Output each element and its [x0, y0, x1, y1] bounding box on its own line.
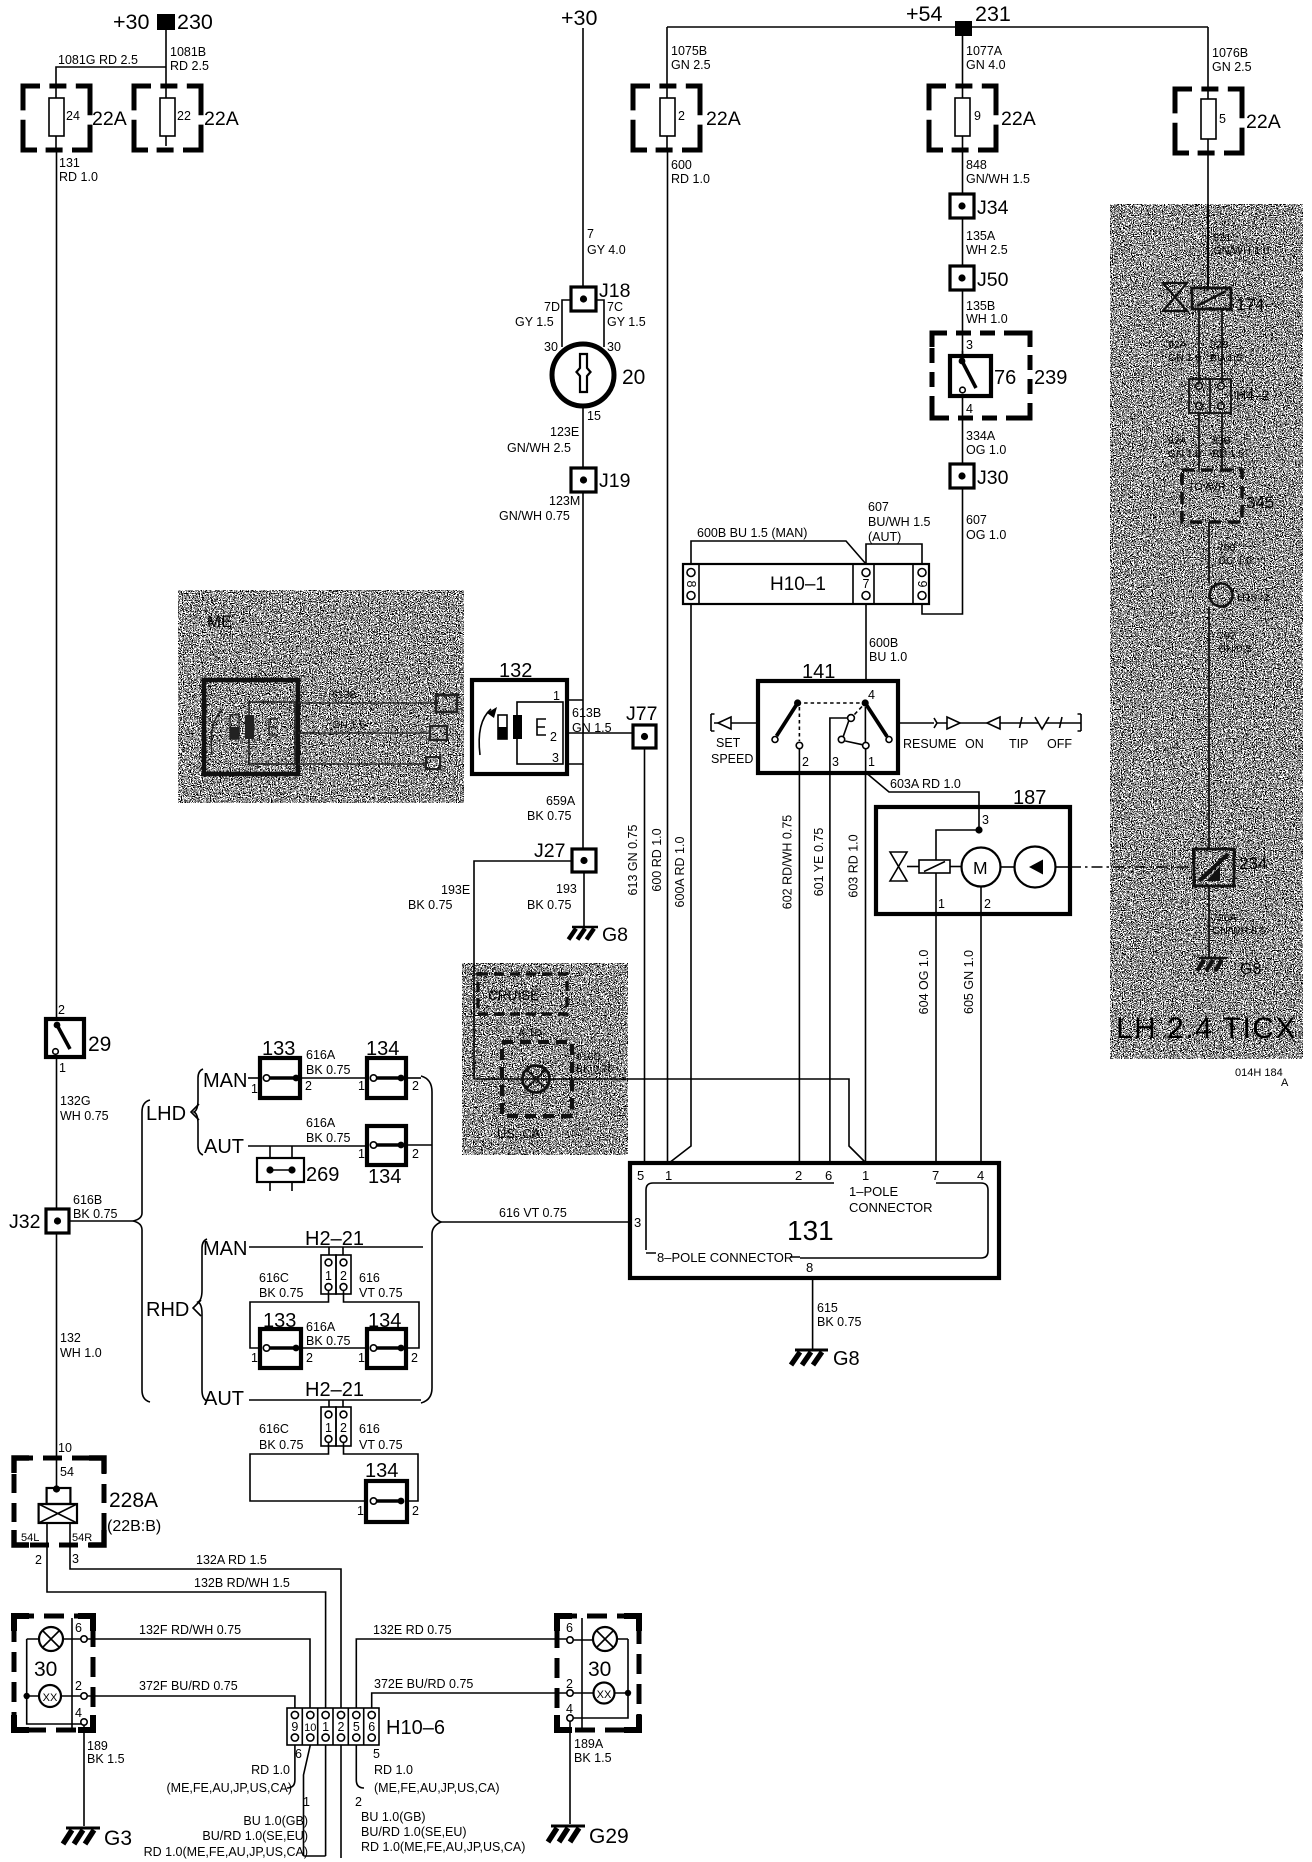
wire from J19 into 132 pin 1 and pin 3 — [567, 700, 583, 764]
svg-text:22A: 22A — [706, 108, 741, 130]
svg-text:24: 24 — [66, 109, 80, 123]
wire 1076B GN 2.5 — [1208, 27, 1252, 89]
svg-text:J34: J34 — [977, 197, 1009, 219]
ground G8 — [569, 924, 629, 946]
wire 602 RD/WH 0.75 — [781, 748, 800, 1163]
svg-text:GY 1.5: GY 1.5 — [607, 315, 646, 329]
cruise control switch 141 — [758, 661, 898, 773]
svg-text:2: 2 — [340, 1269, 347, 1283]
svg-text:J19: J19 — [599, 470, 630, 492]
svg-text:1: 1 — [665, 1168, 672, 1183]
svg-text:7: 7 — [863, 577, 870, 591]
wire 616 VT 0.75 to connector 131 pin 3 — [441, 1206, 630, 1222]
wire 604 OG 1.0 — [917, 914, 936, 1163]
svg-text:SET: SET — [716, 736, 741, 750]
switch 134 (LHD AUT) — [358, 1126, 419, 1188]
svg-text:83B: 83B — [1212, 435, 1231, 447]
joint J19 — [571, 468, 630, 492]
wire 607 OG 1.0 to H10-1 pin 9 — [922, 488, 1006, 614]
ground G8 (under 131) — [791, 1348, 860, 1370]
svg-text:GN/WH 0.75: GN/WH 0.75 — [499, 509, 570, 523]
svg-text:134: 134 — [365, 1460, 398, 1482]
svg-text:J77: J77 — [626, 703, 657, 725]
switch 141 right legend RESUME ON TIP OFF — [898, 714, 1081, 751]
wire vacuum hose (dash-dot) to shaded region — [1070, 866, 1194, 868]
svg-text:LH 2.4 TICX: LH 2.4 TICX — [1116, 1012, 1297, 1045]
svg-text:230: 230 — [177, 10, 213, 34]
svg-text:76: 76 — [994, 367, 1016, 389]
svg-text:+54: +54 — [906, 2, 943, 26]
svg-text:BK 0.75: BK 0.75 — [73, 1207, 118, 1221]
svg-text:1077A: 1077A — [966, 44, 1003, 58]
svg-text:OG 1.0: OG 1.0 — [966, 528, 1006, 542]
svg-text:4: 4 — [566, 1702, 573, 1716]
shaded region LH2.4: connector H10-2 — [1210, 584, 1270, 607]
svg-text:616B: 616B — [73, 1193, 102, 1207]
wire 134 AUT pin 2 to collector — [406, 1144, 432, 1146]
svg-text:2: 2 — [75, 1679, 82, 1693]
node AUT (RHD) — [204, 1388, 244, 1410]
svg-text:22A: 22A — [1001, 108, 1036, 130]
svg-text:LHD: LHD — [146, 1103, 186, 1125]
svg-text:1: 1 — [59, 1061, 66, 1075]
svg-text:372E BU/RD 0.75: 372E BU/RD 0.75 — [374, 1677, 473, 1691]
joint J77 — [626, 703, 657, 748]
joint J32 — [9, 1209, 69, 1233]
svg-text:616A: 616A — [306, 1116, 336, 1130]
svg-text:616 VT 0.75: 616 VT 0.75 — [499, 1206, 567, 1220]
svg-text:H2–21: H2–21 — [305, 1228, 364, 1250]
svg-text:WH 0.75: WH 0.75 — [60, 1109, 109, 1123]
shaded variant region cruise lamp US,CA — [462, 963, 628, 1155]
svg-text:345: 345 — [1246, 493, 1274, 512]
connector H2-21 (AUT) — [321, 1407, 351, 1446]
svg-text:(22B:B): (22B:B) — [107, 1518, 161, 1535]
svg-text:4: 4 — [977, 1168, 984, 1183]
svg-text:54R: 54R — [72, 1532, 92, 1544]
wire H10-6 pin 2 tail — [341, 1745, 525, 1858]
svg-text:BK 0.75: BK 0.75 — [306, 1334, 351, 1348]
svg-text:BU/RD 1.0(SE,EU): BU/RD 1.0(SE,EU) — [361, 1825, 467, 1839]
svg-text:WH 2.5: WH 2.5 — [966, 243, 1008, 257]
wire 600 RD 1.0 label (vertical run) — [650, 828, 664, 891]
switch 133 (LHD) — [251, 1038, 312, 1098]
svg-text:174: 174 — [1236, 295, 1264, 314]
wire 132F RD/WH 0.75 — [87, 1623, 310, 1708]
svg-text:193: 193 — [556, 882, 577, 896]
svg-text:15: 15 — [587, 409, 601, 423]
svg-text:2: 2 — [58, 1003, 65, 1017]
contact 132 (brake/clutch pedal switch) — [472, 660, 567, 774]
brace LHD MAN/AUT — [194, 1069, 203, 1155]
wire 7D GY 1.5 — [515, 300, 571, 354]
svg-text:1: 1 — [303, 1795, 310, 1809]
fuse 24 22A — [23, 86, 127, 150]
joint J34 — [950, 194, 1009, 219]
svg-text:GN/WH 1.5: GN/WH 1.5 — [966, 172, 1030, 186]
svg-text:3: 3 — [552, 751, 559, 765]
svg-text:1: 1 — [357, 1504, 364, 1518]
svg-text:269: 269 — [306, 1164, 339, 1186]
svg-text:600A RD 1.0: 600A RD 1.0 — [673, 837, 687, 908]
svg-text:GN 4.0: GN 4.0 — [966, 58, 1006, 72]
svg-text:1: 1 — [325, 1269, 332, 1283]
svg-text:SPEED: SPEED — [711, 752, 753, 766]
wire 616C BK 0.75 (AUT) — [250, 1422, 366, 1501]
svg-text:MAN: MAN — [203, 1070, 247, 1092]
svg-text:BK 0.75: BK 0.75 — [306, 1063, 351, 1077]
svg-text:234: 234 — [1239, 854, 1267, 873]
svg-text:1: 1 — [358, 1147, 365, 1161]
svg-text:3: 3 — [634, 1215, 641, 1230]
svg-text:GY 1.5: GY 1.5 — [515, 315, 554, 329]
ignition switch 20 — [552, 344, 645, 423]
svg-text:RESUME: RESUME — [903, 737, 956, 751]
shaded region ME: faint wires and joints — [298, 689, 457, 769]
svg-text:132E RD 0.75: 132E RD 0.75 — [373, 1623, 452, 1637]
wire AUT RHD to H2-21 — [249, 1379, 421, 1407]
svg-text:616C: 616C — [259, 1422, 289, 1436]
wire MAN RHD to H2-21 — [249, 1228, 423, 1255]
svg-text:XX: XX — [597, 1689, 612, 1701]
node MAN (LHD) — [203, 1070, 247, 1092]
svg-text:1: 1 — [868, 755, 875, 769]
svg-text:RD 2.5: RD 2.5 — [170, 59, 209, 73]
svg-text:1: 1 — [251, 1351, 258, 1365]
svg-text:2: 2 — [340, 1421, 347, 1435]
shaded region LH2.4: wire 921 GN/WH 1.0 — [1208, 204, 1269, 288]
svg-text:BK 0.75: BK 0.75 — [527, 898, 572, 912]
heater/blower switch 228A — [14, 1441, 161, 1567]
svg-text:8–POLE CONNECTOR: 8–POLE CONNECTOR — [657, 1250, 793, 1265]
node +54 — [906, 2, 943, 26]
shaded region LH2.4: solenoid valve 174 — [1163, 283, 1264, 314]
wire 189 BK 1.5 — [84, 1725, 125, 1826]
svg-text:613B: 613B — [572, 706, 601, 720]
svg-text:M: M — [973, 858, 988, 878]
svg-text:6: 6 — [368, 1720, 375, 1734]
svg-text:1–POLE: 1–POLE — [849, 1184, 898, 1199]
wire 193 BK 0.75 — [527, 872, 584, 927]
brace LHD/RHD split — [133, 1100, 150, 1402]
svg-text:BK 0.75: BK 0.75 — [527, 809, 572, 823]
connector 230 (filled square) — [157, 10, 213, 34]
svg-text:H4–2: H4–2 — [1236, 387, 1270, 403]
wire 613 GN 0.75 — [626, 748, 645, 1163]
svg-text:2: 2 — [984, 897, 991, 911]
switch 134 (RHD) — [358, 1310, 418, 1368]
svg-text:193E: 193E — [441, 883, 470, 897]
svg-text:GY 4.0: GY 4.0 — [587, 243, 626, 257]
svg-text:BU 1.0: BU 1.0 — [869, 650, 907, 664]
svg-text:6: 6 — [75, 1621, 82, 1635]
wire 616C BK 0.75 (MAN) — [250, 1271, 329, 1348]
joint J50 — [950, 266, 1009, 291]
svg-text:616A: 616A — [306, 1048, 336, 1062]
wire 131 RD 1.0 — [57, 150, 98, 1019]
wire H10-6 pin 5 tail — [356, 1745, 499, 1795]
svg-text:J30: J30 — [977, 467, 1009, 489]
svg-text:US, CA: US, CA — [497, 1126, 541, 1141]
svg-text:RD 1.0: RD 1.0 — [374, 1763, 413, 1777]
svg-text:92B: 92B — [1210, 339, 1229, 351]
wire 605 GN 1.0 — [962, 914, 981, 1163]
svg-text:2: 2 — [35, 1553, 42, 1567]
svg-text:2: 2 — [678, 109, 685, 123]
svg-text:602 RD/WH 0.75: 602 RD/WH 0.75 — [781, 815, 795, 910]
svg-text:189A: 189A — [574, 1737, 604, 1751]
svg-text:GN 1.5: GN 1.5 — [332, 719, 365, 731]
svg-text:30: 30 — [544, 340, 558, 354]
svg-text:G3: G3 — [104, 1827, 132, 1850]
wire H10-6 pin 9 tail — [167, 1745, 303, 1795]
svg-text:H10–1: H10–1 — [770, 574, 826, 595]
svg-text:GN 1.5: GN 1.5 — [572, 721, 612, 735]
svg-text:4: 4 — [868, 688, 875, 702]
svg-text:+30: +30 — [561, 6, 598, 30]
shaded variant region left (ME) — [178, 590, 464, 803]
svg-text:239: 239 — [1034, 367, 1067, 389]
svg-text:BK 1.5: BK 1.5 — [574, 1751, 612, 1765]
node +30 left feed — [113, 10, 150, 34]
svg-text:132F RD/WH 0.75: 132F RD/WH 0.75 — [139, 1623, 241, 1637]
svg-text:RD 1.0(ME,FE,AU,JP,US,CA): RD 1.0(ME,FE,AU,JP,US,CA) — [144, 1845, 308, 1859]
svg-text:134: 134 — [368, 1166, 401, 1188]
wire 123M GN/WH 0.75 — [499, 492, 583, 700]
vacuum pump assembly 187 — [876, 787, 1070, 914]
wire 132G WH 0.75 — [57, 1057, 109, 1209]
svg-text:5: 5 — [637, 1168, 644, 1183]
svg-text:10: 10 — [58, 1441, 72, 1455]
svg-text:G8: G8 — [1240, 961, 1261, 978]
svg-text:603 RD 1.0: 603 RD 1.0 — [847, 834, 861, 897]
svg-text:1081B: 1081B — [170, 45, 206, 59]
fuse 5 22A — [1175, 89, 1281, 153]
svg-text:131: 131 — [59, 156, 80, 170]
svg-text:J32: J32 — [9, 1211, 40, 1233]
wire 603 RD 1.0 — [847, 773, 866, 1163]
wire 921 GN/WH 1.0 into shaded region — [1207, 153, 1209, 290]
svg-text:30: 30 — [34, 1658, 57, 1681]
wire 372E BU/RD 0.75 — [372, 1677, 567, 1708]
svg-text:54: 54 — [60, 1465, 74, 1479]
svg-text:BK 0.75: BK 0.75 — [576, 1063, 614, 1075]
svg-text:GN 1.0: GN 1.0 — [1168, 352, 1201, 364]
svg-text:WH 1.0: WH 1.0 — [60, 1346, 102, 1360]
wire 659A BK 0.75 — [527, 764, 583, 849]
svg-text:OFF: OFF — [1047, 737, 1072, 751]
connector 269 — [257, 1158, 339, 1191]
svg-text:BK 0.75: BK 0.75 — [306, 1131, 351, 1145]
svg-text:G8: G8 — [602, 924, 628, 946]
wire 193E to connector 131 pin 1 — [474, 1079, 866, 1163]
node +30 centre feed — [561, 6, 598, 30]
svg-text:607: 607 — [966, 513, 987, 527]
svg-text:(ME,FE,AU,JP,US,CA): (ME,FE,AU,JP,US,CA) — [167, 1781, 292, 1795]
svg-text:616D: 616D — [576, 1051, 602, 1063]
switch 141 left legend SET SPEED — [711, 714, 758, 766]
svg-text:123E: 123E — [550, 425, 579, 439]
svg-text:2: 2 — [305, 1079, 312, 1093]
svg-text:600B BU 1.5 (MAN): 600B BU 1.5 (MAN) — [697, 526, 807, 540]
wire 7 GY 4.0 — [583, 28, 626, 287]
svg-text:BU 1.0(GB): BU 1.0(GB) — [243, 1814, 308, 1828]
svg-text:22A: 22A — [92, 108, 127, 130]
wire 600B BU 1.0 to switch 141 — [866, 604, 907, 681]
shaded region LH2.4: control module 345 — [1182, 470, 1274, 522]
svg-text:XX: XX — [43, 1692, 58, 1704]
svg-text:8: 8 — [684, 581, 698, 588]
connector H10-6 — [287, 1708, 445, 1745]
svg-text:600B: 600B — [869, 636, 898, 650]
svg-text:BU 1.5: BU 1.5 — [1210, 352, 1242, 364]
svg-text:1081G RD 2.5: 1081G RD 2.5 — [58, 53, 138, 67]
svg-text:7: 7 — [587, 227, 594, 241]
svg-text:RD 1.0: RD 1.0 — [59, 170, 98, 184]
svg-text:848: 848 — [966, 158, 987, 172]
svg-text:H10–6: H10–6 — [386, 1717, 445, 1739]
svg-text:1: 1 — [325, 1421, 332, 1435]
wire 189A BK 1.5 — [570, 1721, 612, 1824]
svg-text:601 YE 0.75: 601 YE 0.75 — [812, 828, 826, 897]
connector H10-1 — [683, 564, 929, 604]
wire 613B GN 1.5 — [567, 706, 633, 735]
svg-text:726A: 726A — [1212, 912, 1237, 924]
wire 600 RD 1.0 from fuse 2 — [668, 150, 710, 1163]
svg-text:TO AVR: TO AVR — [1188, 481, 1226, 493]
svg-text:616A: 616A — [306, 1320, 336, 1334]
svg-text:132G: 132G — [60, 1094, 91, 1108]
svg-text:2: 2 — [411, 1351, 418, 1365]
joint J27 — [534, 840, 596, 872]
svg-text:2: 2 — [338, 1720, 345, 1734]
svg-text:132: 132 — [60, 1331, 81, 1345]
connector H2-21 (MAN) — [321, 1255, 351, 1294]
svg-text:8: 8 — [806, 1260, 813, 1275]
svg-text:334A: 334A — [966, 429, 996, 443]
svg-text:6: 6 — [566, 1621, 573, 1635]
svg-text:613 GN 0.75: 613 GN 0.75 — [626, 825, 640, 896]
svg-text:92A: 92A — [1168, 339, 1187, 351]
fuse 22 22A — [134, 86, 239, 150]
svg-text:BK 0.75: BK 0.75 — [259, 1438, 304, 1452]
lamp cluster 30 left — [14, 1616, 93, 1730]
fuse 2 22A — [633, 86, 741, 150]
svg-text:MAN: MAN — [203, 1238, 247, 1260]
svg-text:30: 30 — [588, 1658, 611, 1681]
wire 1075B GN 2.5 — [667, 27, 711, 86]
wire 616B BK 0.75 — [69, 1193, 133, 1221]
wire 616 VT 0.75 (AUT) — [344, 1422, 419, 1501]
svg-text:4: 4 — [75, 1706, 82, 1720]
svg-text:J18: J18 — [599, 280, 630, 302]
shaded region ME: text ME — [207, 612, 233, 631]
svg-text:135B: 135B — [966, 299, 995, 313]
svg-text:7: 7 — [932, 1168, 939, 1183]
svg-text:J27: J27 — [534, 840, 565, 862]
svg-text:BK 1.5: BK 1.5 — [87, 1752, 125, 1766]
svg-text:G8: G8 — [833, 1348, 860, 1370]
svg-text:131: 131 — [787, 1215, 834, 1246]
wire 1081G RD 2.5 — [56, 53, 166, 86]
wire 134 pin 2 to collector — [406, 1077, 421, 1079]
svg-text:6: 6 — [295, 1747, 302, 1761]
svg-text:+30: +30 — [113, 10, 150, 34]
svg-text:(AUT): (AUT) — [868, 530, 901, 544]
wire 132 WH 1.0 — [57, 1233, 102, 1458]
svg-text:9: 9 — [915, 581, 929, 588]
wire 603A RD 1.0 — [868, 774, 980, 830]
svg-text:BU/RD 1.0(SE,EU): BU/RD 1.0(SE,EU) — [202, 1829, 308, 1843]
svg-text:2: 2 — [412, 1079, 419, 1093]
shaded region LH2.4: wire 700 OG 0.5 — [1209, 522, 1252, 583]
svg-text:BK 0.75: BK 0.75 — [408, 898, 453, 912]
shaded region LH2.4: wires 174 to H4 — [1168, 309, 1242, 382]
svg-text:GN 0.5: GN 0.5 — [1218, 643, 1251, 655]
svg-text:AUT: AUT — [204, 1136, 244, 1158]
fuse 9 22A — [929, 86, 1036, 150]
switch 134 (LHD MAN) — [358, 1038, 419, 1098]
svg-text:600 RD 1.0: 600 RD 1.0 — [650, 828, 664, 891]
svg-text:7D: 7D — [544, 300, 560, 314]
svg-text:3: 3 — [966, 338, 973, 352]
lamp cluster 30 right — [557, 1616, 639, 1730]
svg-text:22A: 22A — [204, 108, 239, 130]
connector 131 (cruise control unit) — [630, 1163, 999, 1278]
svg-text:2: 2 — [550, 730, 557, 744]
svg-text:GN 1.0: GN 1.0 — [1168, 448, 1201, 460]
svg-text:228A: 228A — [109, 1489, 158, 1512]
svg-text:3: 3 — [832, 755, 839, 769]
svg-text:5: 5 — [373, 1747, 380, 1761]
node LHD — [146, 1103, 199, 1125]
svg-text:9: 9 — [291, 1720, 298, 1734]
wire 616A BK 0.75 (LHD AUT) — [306, 1116, 351, 1145]
svg-text:1: 1 — [358, 1351, 365, 1365]
svg-text:616: 616 — [359, 1422, 380, 1436]
shaded region LH2.4: wire 702 GN 0.5 — [1209, 607, 1251, 849]
svg-text:613B: 613B — [332, 689, 357, 701]
svg-text:372F BU/RD 0.75: 372F BU/RD 0.75 — [139, 1679, 238, 1693]
svg-text:1: 1 — [358, 1079, 365, 1093]
shaded region LH2.4: wires H4 to 345 — [1168, 413, 1244, 470]
svg-text:231: 231 — [975, 2, 1011, 26]
svg-text:BU 1.5: BU 1.5 — [1212, 448, 1244, 460]
svg-text:1075B: 1075B — [671, 44, 707, 58]
svg-text:BU/WH 1.5: BU/WH 1.5 — [868, 515, 931, 529]
wire 600A RD 1.0 — [669, 604, 691, 1163]
wire +54 bus — [667, 26, 1208, 28]
ground G29 — [548, 1825, 629, 1848]
shaded region LH2.4: wire 726A GN/WH 0.5 — [1209, 886, 1266, 957]
svg-text:OG 1.0: OG 1.0 — [966, 443, 1006, 457]
svg-text:10: 10 — [304, 1722, 316, 1734]
wire 615 BK 0.75 — [813, 1278, 862, 1349]
svg-text:CRUISE: CRUISE — [488, 988, 539, 1003]
wire MAN LHD — [248, 1077, 260, 1079]
svg-text:600: 600 — [671, 158, 692, 172]
wire AUT LHD — [248, 1146, 367, 1158]
shaded region cruise: lamp box US,CA — [497, 1027, 614, 1141]
svg-text:GN/WH 2.5: GN/WH 2.5 — [507, 441, 571, 455]
svg-text:BU 1.0(GB): BU 1.0(GB) — [361, 1810, 426, 1824]
svg-text:605 GN 1.0: 605 GN 1.0 — [962, 950, 976, 1014]
svg-text:5: 5 — [353, 1720, 360, 1734]
brace RHD MAN/AUT — [198, 1239, 207, 1401]
svg-text:123M: 123M — [549, 494, 580, 508]
switch 29 — [46, 1003, 111, 1075]
shaded region LH2.4: ground G8 — [1197, 958, 1261, 978]
